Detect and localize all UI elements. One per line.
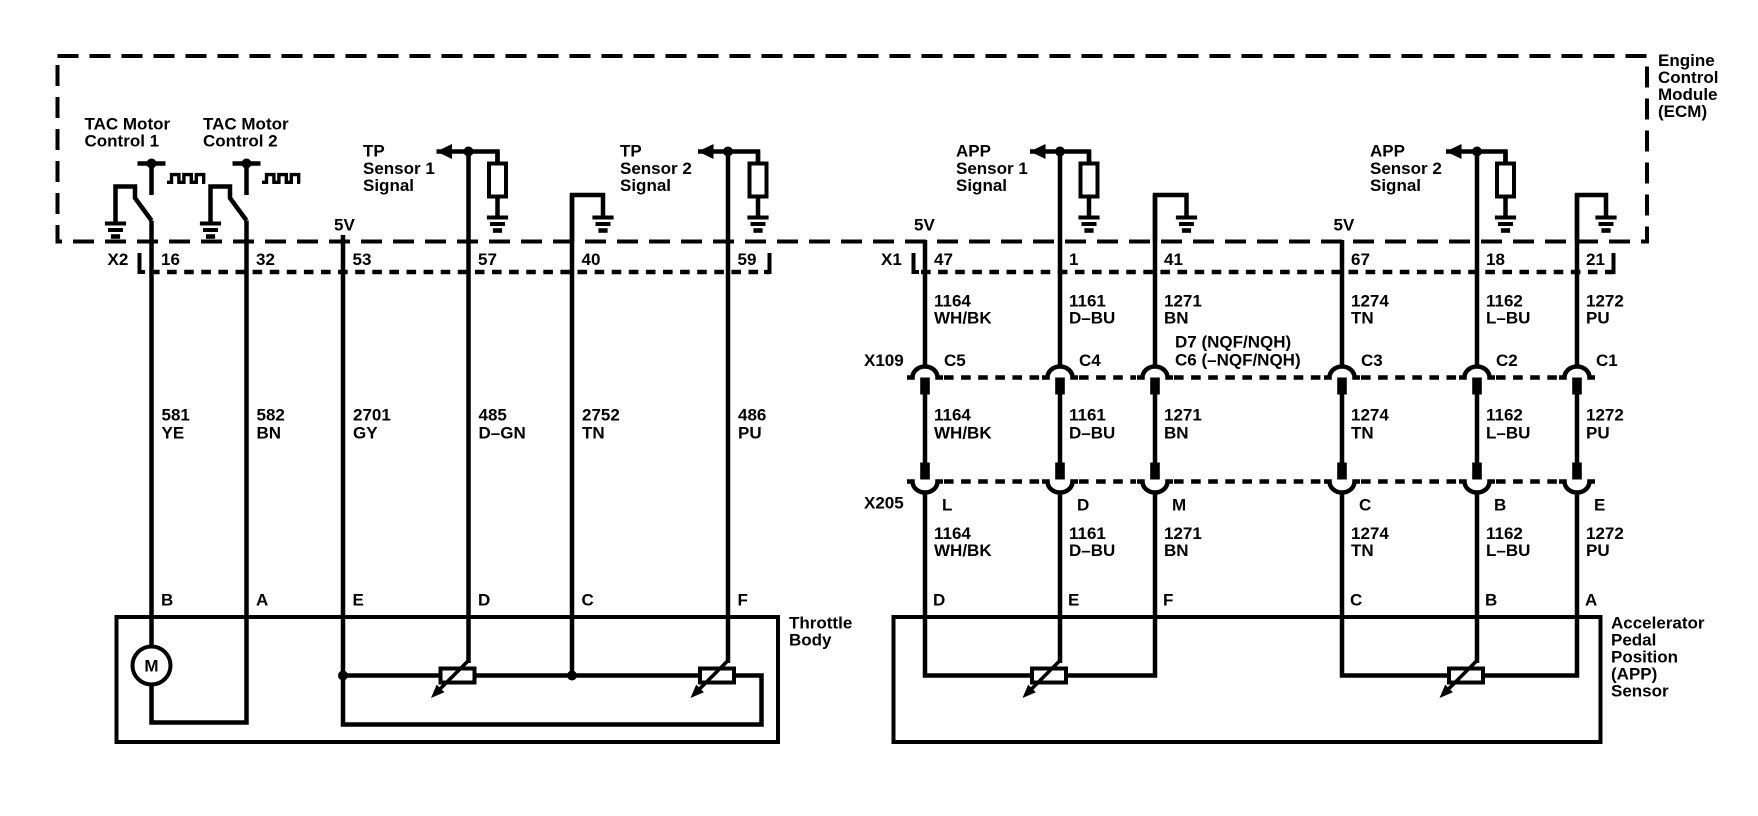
ground (APP2 pull-up): [1495, 218, 1516, 231]
label: TAC Motor Control 1: [85, 115, 171, 151]
svg-text:BN: BN: [1164, 541, 1189, 560]
svg-text:PU: PU: [1586, 309, 1610, 328]
wire 2701 GY: [341, 235, 346, 619]
wire: pin D to TP1 wiper: [466, 617, 471, 663]
svg-text:B: B: [161, 591, 173, 610]
svg-text:Control 1: Control 1: [85, 132, 160, 151]
wire: APP2 track (C to A): [1342, 617, 1577, 676]
wire: APP2 signal node to pull-up: [1446, 152, 1506, 167]
svg-text:TN: TN: [1351, 424, 1374, 443]
wire: pin 41 low reference to ground: [1155, 195, 1187, 242]
ECM dashed enclosure box: [58, 56, 1648, 242]
label: circuit 1164 WH/BK (X205-sensor segment): [934, 524, 992, 560]
svg-text:WH/BK: WH/BK: [934, 424, 992, 443]
wire 1271 BN (X109 to X205): [1153, 394, 1158, 464]
svg-text:57: 57: [478, 250, 497, 269]
label: circuit 1162 L–BU (X109-X205 segment): [1486, 406, 1530, 443]
label: circuit 1274 TN (ECM-X109 segment): [1351, 292, 1389, 328]
label: circuit 1271 BN (ECM-X109 segment): [1164, 292, 1202, 328]
label: TAC Motor Control 2: [203, 115, 289, 151]
svg-text:WH/BK: WH/BK: [934, 541, 992, 560]
connector X109 terminal at x=1155 (socket + pin): [1137, 367, 1173, 395]
svg-text:C: C: [1350, 591, 1362, 610]
label: circuit 1161 D–BU (ECM-X109 segment): [1069, 292, 1115, 328]
connector X109 dashed row: [944, 375, 1558, 379]
label: circuit 582 BN: [257, 406, 285, 443]
svg-text:X1: X1: [881, 250, 902, 269]
svg-text:C: C: [582, 591, 594, 610]
junction APP2 signal / pin 18: [1472, 147, 1482, 157]
connector X109 terminal at x=925 (socket + pin): [907, 367, 943, 395]
label: circuit 1271 BN (X109-X205 segment): [1164, 406, 1202, 443]
label: APP Sensor 1 Signal: [956, 142, 1028, 196]
wire: APP1 track (D to F): [925, 617, 1155, 676]
svg-text:L: L: [942, 496, 952, 515]
label: circuit 2701 GY: [353, 406, 391, 443]
label: circuit 1164 WH/BK (X109-X205 segment): [934, 406, 992, 443]
connector X1 header (ECM): [881, 250, 1614, 272]
label: circuit 1161 D–BU (X109-X205 segment): [1069, 406, 1115, 443]
svg-text:486: 486: [738, 406, 766, 425]
connector X205 terminal L (pin + socket): [907, 463, 943, 493]
connector X205 terminal B (pin + socket): [1459, 463, 1495, 493]
wire 1271 BN (ECM to X109): [1153, 195, 1158, 366]
svg-text:D: D: [1077, 496, 1089, 515]
svg-text:Body: Body: [789, 631, 832, 650]
ground (APP1 pull-up): [1078, 218, 1099, 231]
svg-text:A: A: [1585, 591, 1597, 610]
svg-text:D–BU: D–BU: [1069, 309, 1115, 328]
svg-text:21: 21: [1586, 250, 1605, 269]
svg-text:59: 59: [738, 250, 757, 269]
svg-text:F: F: [1163, 591, 1173, 610]
connector X205 dashed row: [944, 479, 1558, 483]
signal arrow (TP Sensor 1 Signal): [437, 144, 453, 159]
svg-text:Signal: Signal: [1370, 176, 1421, 195]
connector X205 terminal E (pin + socket): [1559, 463, 1595, 493]
potentiometer TP sensor 2: [691, 661, 735, 699]
svg-text:D–GN: D–GN: [479, 424, 526, 443]
svg-text:1272: 1272: [1586, 406, 1624, 425]
svg-text:C: C: [1359, 496, 1371, 515]
svg-text:GY: GY: [353, 424, 378, 443]
wire 1161 D-BU (X109 to X205): [1058, 394, 1063, 464]
junction TP2 signal / pin 59: [723, 147, 733, 157]
svg-text:C3: C3: [1361, 351, 1383, 370]
connector X205 terminal D (pin + socket): [1042, 463, 1078, 493]
connector X109 terminal at x=1342 (socket + pin): [1324, 367, 1360, 395]
svg-text:C5: C5: [944, 351, 966, 370]
svg-text:L–BU: L–BU: [1486, 309, 1530, 328]
label: Engine Control Module (ECM): [1658, 51, 1718, 121]
svg-text:TN: TN: [1351, 309, 1374, 328]
svg-text:TP: TP: [363, 142, 385, 161]
label: circuit 1274 TN (X205-sensor segment): [1351, 524, 1389, 560]
wire 1164 WH/BK (ECM to X109): [923, 240, 928, 366]
svg-text:5V: 5V: [914, 216, 935, 235]
wire 1271 BN (X205 to APP sensor): [1153, 494, 1158, 619]
potentiometer TP sensor 1: [431, 661, 475, 699]
label: TP Sensor 2 Signal: [620, 142, 692, 196]
wire 1164 WH/BK (X109 to X205): [923, 394, 928, 464]
wire: pin F to TP2 wiper: [726, 617, 731, 663]
svg-text:C1: C1: [1596, 351, 1618, 370]
wire: TP2 signal node to pull-up: [698, 152, 758, 167]
ground (APP low reference 2): [1595, 218, 1616, 231]
svg-text:TP: TP: [620, 142, 642, 161]
label: circuit 1272 PU (X109-X205 segment): [1586, 406, 1624, 443]
potentiometer APP sensor 1: [1023, 661, 1067, 699]
svg-text:D–BU: D–BU: [1069, 541, 1115, 560]
PWM waveform symbol (TAC 1): [167, 175, 205, 183]
label: circuit 581 YE: [162, 406, 190, 443]
wire: APP1 signal node to pull-up: [1030, 152, 1089, 167]
svg-text:18: 18: [1486, 250, 1505, 269]
svg-text:A: A: [256, 591, 268, 610]
label: Throttle Body: [789, 614, 852, 650]
svg-text:53: 53: [353, 250, 372, 269]
svg-text:PU: PU: [1586, 541, 1610, 560]
svg-text:E: E: [353, 591, 364, 610]
svg-text:485: 485: [479, 406, 507, 425]
svg-text:E: E: [1068, 591, 1079, 610]
connector X205 terminal M (pin + socket): [1137, 463, 1173, 493]
label: circuit 485 D–GN: [479, 406, 526, 443]
label: circuit 1161 D–BU (X205-sensor segment): [1069, 524, 1115, 560]
wire 1162 L-BU (X205 to APP sensor): [1475, 494, 1480, 619]
TAC motor control 2 driver (switch to ground): [211, 159, 261, 224]
Accelerator Pedal Position (APP) Sensor box: [894, 617, 1601, 742]
potentiometer APP sensor 2: [1440, 661, 1484, 699]
wire: pin 21 low reference to ground: [1577, 195, 1606, 242]
svg-text:D–BU: D–BU: [1069, 424, 1115, 443]
svg-text:(ECM): (ECM): [1658, 102, 1707, 121]
wire: motor to pin B: [149, 617, 154, 648]
TAC motor control 1 driver (switch to ground): [116, 159, 166, 224]
svg-text:582: 582: [257, 406, 285, 425]
junction APP1 signal / pin 1: [1055, 147, 1065, 157]
wire: pin C to track: [570, 617, 575, 676]
resistor TP1 pull-up: [489, 152, 506, 220]
svg-text:APP: APP: [1370, 142, 1405, 161]
svg-text:WH/BK: WH/BK: [934, 309, 992, 328]
wire: TP resistive track loop (E to track ends): [343, 617, 762, 725]
svg-text:BN: BN: [1164, 424, 1189, 443]
wire 1164 WH/BK (X205 to APP sensor): [923, 494, 928, 619]
ground (TP1 pull-up): [487, 218, 508, 231]
connector X109 terminal at x=1577 (socket + pin): [1559, 367, 1595, 395]
resistor APP2 pull-up: [1497, 152, 1514, 220]
svg-text:1161: 1161: [1069, 406, 1106, 425]
wire: pin E to APP1 wiper: [1058, 617, 1063, 663]
svg-text:D: D: [933, 591, 945, 610]
wire 1274 TN (X109 to X205): [1340, 394, 1345, 464]
signal arrow (TP Sensor 2 Signal): [698, 144, 714, 159]
svg-text:X109: X109: [864, 351, 904, 370]
svg-text:PU: PU: [738, 424, 762, 443]
connector X109 terminal at x=1477 (socket + pin): [1459, 367, 1495, 395]
svg-text:1: 1: [1069, 250, 1078, 269]
wire 1272 PU (ECM to X109): [1575, 195, 1580, 366]
svg-text:Control 2: Control 2: [203, 132, 278, 151]
motor M1 (TAC motor): [133, 647, 171, 685]
label: circuit 1274 TN (X109-X205 segment): [1351, 406, 1389, 443]
svg-text:C2: C2: [1496, 351, 1518, 370]
label: Accelerator Pedal Position (APP) Sensor: [1611, 614, 1705, 701]
svg-text:40: 40: [582, 250, 601, 269]
signal arrow (APP Sensor 2 Signal): [1446, 144, 1462, 159]
wire 582 BN: [244, 221, 249, 620]
svg-text:2701: 2701: [353, 406, 391, 425]
Throttle Body box: [117, 617, 779, 742]
svg-text:Signal: Signal: [620, 176, 671, 195]
svg-text:67: 67: [1351, 250, 1370, 269]
label: circuit 1162 L–BU (ECM-X109 segment): [1486, 292, 1530, 328]
svg-text:B: B: [1494, 496, 1506, 515]
connector X109 terminal at x=1060 (socket + pin): [1042, 367, 1078, 395]
signal arrow (APP Sensor 1 Signal): [1030, 144, 1046, 159]
svg-text:1271: 1271: [1164, 406, 1202, 425]
svg-text:Signal: Signal: [956, 176, 1007, 195]
wire 1161 D-BU (X205 to APP sensor): [1058, 494, 1063, 619]
wire: pin 40 low reference to ground: [572, 195, 603, 242]
svg-text:1162: 1162: [1486, 406, 1523, 425]
resistor APP1 pull-up: [1081, 152, 1098, 220]
svg-text:Signal: Signal: [363, 176, 414, 195]
wire 581 YE: [149, 221, 154, 620]
svg-text:2752: 2752: [582, 406, 620, 425]
svg-text:47: 47: [934, 250, 953, 269]
svg-text:581: 581: [162, 406, 190, 425]
svg-text:5V: 5V: [334, 216, 355, 235]
svg-text:PU: PU: [1586, 424, 1610, 443]
svg-text:5V: 5V: [1334, 216, 1355, 235]
ground (TAC 2): [200, 224, 221, 237]
svg-text:M: M: [144, 657, 158, 676]
wire 1272 PU (X205 to APP sensor): [1575, 494, 1580, 619]
PWM waveform symbol (TAC 2): [262, 175, 300, 183]
label: circuit 1164 WH/BK (ECM-X109 segment): [934, 292, 992, 328]
svg-text:41: 41: [1164, 250, 1183, 269]
svg-text:B: B: [1485, 591, 1497, 610]
svg-text:TN: TN: [1351, 541, 1374, 560]
ground (TAC 1): [105, 224, 126, 237]
wire: TP1 signal node to pull-up: [437, 152, 498, 167]
svg-text:E: E: [1594, 496, 1605, 515]
ground (APP low reference 1): [1176, 218, 1197, 231]
label: circuit 486 PU: [738, 406, 766, 443]
junction node C / track: [567, 671, 577, 681]
svg-text:BN: BN: [1164, 309, 1189, 328]
label: TP Sensor 1 Signal: [363, 142, 435, 196]
svg-text:YE: YE: [162, 424, 185, 443]
ground (TP low reference): [592, 218, 613, 231]
label: APP Sensor 2 Signal: [1370, 142, 1442, 196]
svg-text:X2: X2: [108, 250, 129, 269]
svg-text:Sensor: Sensor: [1611, 682, 1669, 701]
connector X2 header (ECM): [108, 250, 770, 272]
wire: motor to pin A: [152, 617, 247, 723]
svg-text:X205: X205: [864, 494, 904, 513]
svg-text:32: 32: [256, 250, 275, 269]
ground (TP2 pull-up): [747, 218, 768, 231]
wire 1272 PU (X109 to X205): [1575, 394, 1580, 464]
svg-text:D7 (NQF/NQH): D7 (NQF/NQH): [1175, 333, 1291, 352]
junction TP1 signal / pin 57: [464, 147, 474, 157]
wire 2752 TN: [570, 195, 575, 619]
label: circuit 2752 TN: [582, 406, 620, 443]
label: circuit 1272 PU (X205-sensor segment): [1586, 524, 1624, 560]
connector X205 terminal C (pin + socket): [1324, 463, 1360, 493]
svg-text:1164: 1164: [934, 406, 971, 425]
wire 1274 TN (X205 to APP sensor): [1340, 494, 1345, 619]
wire 1161 D-BU (ECM to X109): [1058, 152, 1063, 367]
wire 1162 L-BU (X109 to X205): [1475, 394, 1480, 464]
svg-text:APP: APP: [956, 142, 991, 161]
label: circuit 1271 BN (X205-sensor segment): [1164, 524, 1202, 560]
svg-text:C4: C4: [1079, 351, 1101, 370]
label: circuit 1272 PU (ECM-X109 segment): [1586, 292, 1624, 328]
svg-text:D: D: [478, 591, 490, 610]
wire 485 D-GN: [466, 152, 471, 620]
wire: pin B to APP2 wiper: [1475, 617, 1480, 663]
svg-text:M: M: [1172, 496, 1186, 515]
svg-text:BN: BN: [257, 424, 282, 443]
wire 486 PU: [726, 152, 731, 620]
svg-text:F: F: [738, 591, 748, 610]
wire 1162 L-BU (ECM to X109): [1475, 152, 1480, 367]
wire 1274 TN (ECM to X109): [1340, 240, 1345, 366]
svg-text:L–BU: L–BU: [1486, 541, 1530, 560]
svg-text:TN: TN: [582, 424, 605, 443]
svg-text:1274: 1274: [1351, 406, 1389, 425]
pin D7 (NQF/NQH) / C6 (-NQF/NQH) (X109): [1175, 333, 1301, 370]
svg-text:C6 (–NQF/NQH): C6 (–NQF/NQH): [1175, 351, 1301, 370]
svg-text:16: 16: [161, 250, 180, 269]
svg-text:L–BU: L–BU: [1486, 424, 1530, 443]
resistor TP2 pull-up: [750, 152, 767, 220]
label: circuit 1162 L–BU (X205-sensor segment): [1486, 524, 1530, 560]
junction node E / track: [338, 671, 348, 681]
